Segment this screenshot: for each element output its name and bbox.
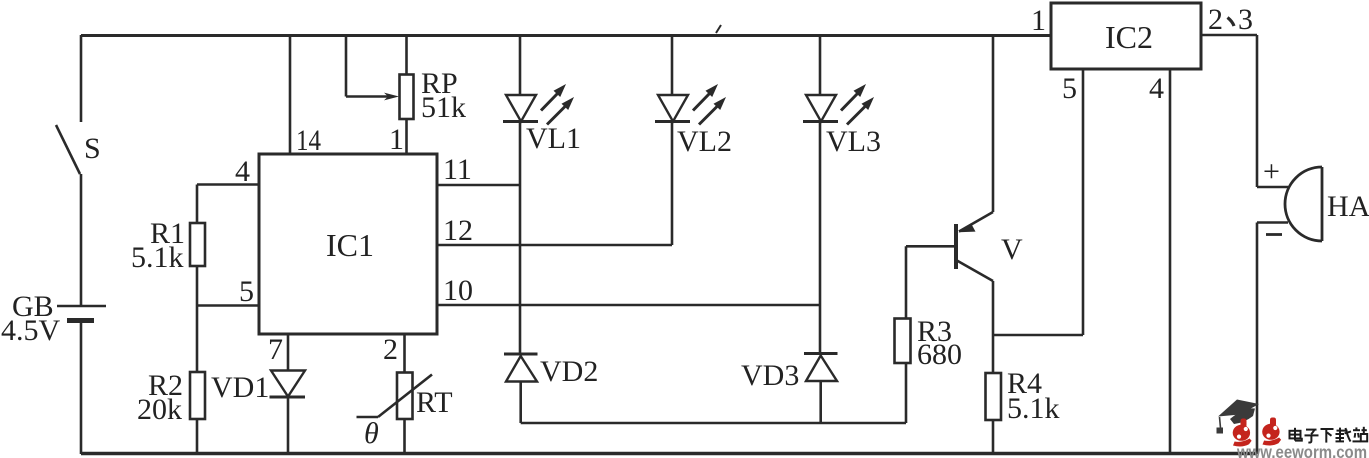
wire HA minus to bottom rail [1256, 223, 1259, 455]
svg-text:4: 4 [1149, 72, 1164, 105]
wire R3 to bus [905, 363, 908, 423]
pin 14 wire [289, 35, 292, 154]
svg-text:7: 7 [268, 333, 283, 366]
svg-text:51k: 51k [421, 91, 466, 124]
svg-text:www.eeworm.com: www.eeworm.com [1236, 442, 1367, 458]
transistor V [956, 35, 1023, 335]
glyph xia [1321, 429, 1334, 443]
svg-text:4: 4 [235, 155, 250, 188]
svg-text:10: 10 [443, 274, 473, 307]
watermark logo cap [1217, 400, 1260, 434]
wire top rail [81, 34, 1051, 37]
svg-text:S: S [84, 132, 101, 165]
speaker HA [1257, 155, 1369, 241]
pin 2,3 label IC2 [1208, 3, 1253, 36]
switch S [56, 125, 101, 174]
svg-text:VD2: VD2 [540, 355, 598, 388]
svg-text:θ: θ [364, 417, 379, 450]
wire junction to R4 [992, 335, 995, 373]
svg-text:11: 11 [443, 153, 472, 186]
svg-text:20k: 20k [137, 393, 182, 426]
glyph dian [1290, 428, 1302, 441]
resistor R3 680 [895, 315, 963, 371]
svg-text:5: 5 [239, 275, 254, 308]
resistor R2 20k [137, 369, 205, 426]
glyph zai [1336, 428, 1352, 442]
glyph zi [1305, 430, 1319, 443]
svg-text:2: 2 [383, 333, 398, 366]
svg-text:IC2: IC2 [1105, 19, 1153, 55]
wire RP wiper feed [346, 35, 399, 100]
wire switch to battery [80, 174, 83, 306]
wire battery to bottom rail [80, 321, 83, 455]
svg-text:5.1k: 5.1k [131, 241, 184, 274]
IC IC1 [259, 154, 437, 334]
wire VL1 to VD2 [519, 185, 522, 354]
svg-text:12: 12 [443, 214, 473, 247]
svg-text:IC1: IC1 [326, 227, 374, 263]
wire collector to pin5 [993, 334, 1083, 337]
wire bottom rail [81, 452, 1257, 455]
thermistor RT [357, 373, 453, 455]
LED VL2 [655, 35, 732, 245]
wire base [906, 245, 956, 248]
svg-text:VD3: VD3 [741, 359, 799, 392]
speck mark [716, 25, 721, 33]
glyph zhan [1353, 427, 1368, 442]
wire pin 11 [437, 184, 520, 187]
wire IC2 pin 2,3 to HA [1201, 35, 1257, 187]
diode VD1 [211, 371, 305, 455]
svg-text:VD1: VD1 [211, 371, 269, 404]
wire IC2 pin4 to bottom rail [1169, 69, 1172, 454]
svg-text:1: 1 [389, 123, 404, 156]
wire R1 top [196, 185, 199, 224]
resistor R1 5.1k [131, 217, 205, 274]
potentiometer RP 51k [400, 35, 467, 154]
wire R1 to pin5 [196, 266, 199, 372]
svg-text:3: 3 [1238, 3, 1253, 36]
wire base to R3 [905, 246, 908, 318]
resistor R4 5.1k [986, 367, 1060, 425]
svg-text:5: 5 [1062, 72, 1077, 105]
svg-text:VL2: VL2 [677, 125, 732, 158]
svg-text:5.1k: 5.1k [1007, 392, 1060, 425]
diode VD3 [741, 305, 838, 423]
wire R2 to bottom rail [196, 419, 199, 454]
svg-text:2: 2 [1208, 3, 1223, 36]
IC IC2 [1051, 3, 1201, 69]
wire R4 to bottom rail [992, 420, 995, 454]
wire pin5 horizontal [197, 304, 259, 307]
svg-text:RT: RT [416, 386, 453, 419]
wire pin 10 [437, 304, 820, 307]
svg-text:4.5V: 4.5V [1, 314, 61, 347]
svg-text:1: 1 [1031, 4, 1046, 37]
svg-text:V: V [1001, 233, 1023, 266]
svg-text:VL3: VL3 [826, 125, 881, 158]
svg-text:HA: HA [1327, 190, 1369, 223]
diode VD2 [504, 354, 598, 423]
wire left branch upper [80, 35, 83, 122]
LED VL1 [503, 35, 581, 185]
wire pin 12 [437, 244, 672, 247]
svg-text:14: 14 [296, 124, 321, 157]
battery GB 4.5V [1, 290, 106, 347]
wire pin4 horizontal [197, 183, 259, 186]
LED VL3 [803, 35, 881, 305]
svg-text:680: 680 [917, 338, 962, 371]
svg-text:VL1: VL1 [526, 122, 581, 155]
svg-text:+: + [1263, 155, 1280, 188]
wire IC2 pin5 [1082, 69, 1085, 335]
wire pin 2 [403, 334, 406, 373]
wire pin 7 [287, 334, 290, 371]
wire VD bottom bus [521, 422, 906, 425]
watermark text dianzi xiazaizhan [1290, 427, 1368, 443]
watermark 虫虫 red [1233, 418, 1281, 447]
